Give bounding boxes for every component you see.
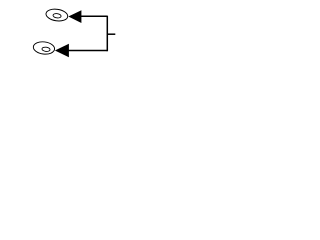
- connector J2 inner ellipse: [42, 47, 51, 52]
- arrow into J2: [55, 44, 69, 57]
- connector J1 outer ellipse: [45, 8, 68, 23]
- wire top: [81, 15, 107, 17]
- stub input: [107, 33, 115, 35]
- arrow into J1: [68, 10, 81, 23]
- connector J1 inner ellipse: [53, 13, 62, 18]
- wire vertical: [106, 16, 108, 52]
- connector J2 outer ellipse: [33, 41, 56, 56]
- wire bottom: [68, 50, 108, 52]
